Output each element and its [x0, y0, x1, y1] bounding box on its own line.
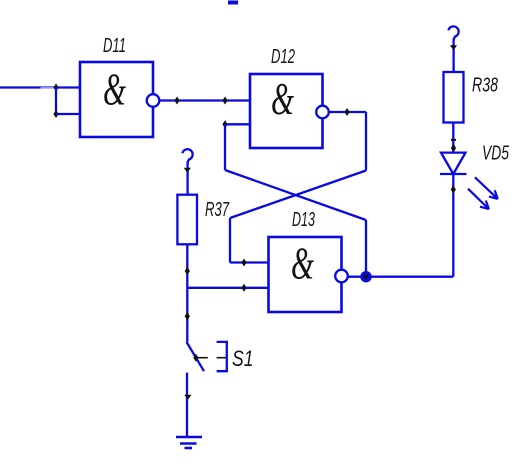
wire input from left edge — [0, 86, 80, 88]
wire hook to R38 — [452, 39, 454, 72]
svg-text:R38: R38 — [472, 75, 498, 97]
svg-text:R37: R37 — [205, 199, 230, 221]
LED VD5 cathode bar — [440, 173, 467, 175]
wire D12 input 2 vertical down — [224, 124, 226, 170]
switch S1 actuator dash 1 — [198, 357, 208, 359]
switch S1 blade — [187, 342, 205, 371]
node arrow on R38 top wire — [450, 45, 457, 50]
svg-text:&: & — [271, 74, 294, 124]
node input branch junction — [53, 84, 58, 92]
wire faded overlay — [41, 87, 56, 90]
resistor R37 — [177, 195, 197, 245]
svg-text:D11: D11 — [103, 35, 126, 57]
svg-text:&: & — [291, 239, 314, 289]
node on D12 output wire — [344, 108, 349, 116]
wire D13 input 2 horizontal — [187, 287, 268, 289]
svg-text:D13: D13 — [292, 209, 315, 231]
power hook R37 top — [182, 149, 192, 162]
wire cross diagonal A (D12 in2 to D13 out node) — [225, 170, 366, 220]
node on D13 input 1 — [241, 259, 246, 267]
svg-text:&: & — [103, 65, 126, 115]
gate D13 body — [269, 237, 342, 312]
wire D13 output to LED column — [348, 276, 454, 278]
ground symbol bar 3 — [185, 447, 193, 450]
switch S1 actuator bracket — [217, 342, 227, 371]
LED VD5 emission arrow 2 — [468, 189, 489, 209]
gate D13 output inversion bubble — [335, 270, 348, 283]
wire D13 input 1 horizontal — [230, 261, 269, 263]
wire cross diagonal B (D12 out to D13 in1) — [230, 171, 366, 219]
wire R38 to LED — [452, 123, 454, 153]
gate D11 output inversion bubble — [147, 94, 160, 107]
wire D12 input 2 horizontal — [225, 123, 250, 125]
wire D12 output vertical down — [365, 112, 367, 171]
switch S1 actuator dash 2 — [217, 357, 227, 359]
node on D11 output wire — [174, 97, 179, 105]
wire vertical into output node — [365, 220, 367, 277]
wire LED cathode down to output net — [452, 174, 454, 277]
wire top margin stub — [228, 1, 238, 5]
node lower branch junction — [53, 110, 58, 118]
gate D12 output inversion bubble — [316, 106, 329, 119]
node dash above LED — [451, 139, 456, 141]
wire D13 input 1 vertical — [229, 218, 231, 263]
svg-text:VD5: VD5 — [482, 143, 510, 165]
LED VD5 triangle — [441, 153, 466, 174]
wire input branch vertical — [55, 88, 57, 115]
node diamond above LED — [451, 144, 456, 153]
node arrow on ground wire — [184, 395, 191, 400]
LED VD5 emission arrow 1 — [475, 177, 498, 199]
node diamond below LED — [451, 185, 456, 194]
node diamond on wire below R37 — [185, 267, 190, 276]
wire hook to R37 — [186, 162, 188, 195]
node D12 input 2 corner — [222, 120, 227, 128]
wire R37 bottom to switch — [186, 244, 188, 342]
power hook R38 top — [448, 26, 458, 39]
resistor R38 — [444, 72, 464, 123]
node on D13 input 2 — [241, 284, 246, 292]
wire input branch to D11 pin 2 — [56, 113, 80, 115]
wire switch bottom to ground — [186, 373, 188, 437]
node junction dot D13 output — [360, 271, 371, 282]
switch S1 blade arrow marker — [193, 354, 198, 362]
svg-text:S1: S1 — [232, 346, 254, 371]
wire D11 output to D12 input 1 — [159, 99, 250, 101]
node arrow on R37 top wire — [184, 168, 191, 173]
svg-text:D12: D12 — [271, 46, 295, 68]
wire D12 output right — [329, 111, 366, 113]
node diamond above switch — [185, 312, 190, 321]
op-amp U gate D11 body — [80, 62, 153, 137]
ground symbol bar 1 — [176, 436, 202, 439]
gate D12 body — [250, 74, 323, 148]
node at feedback tap — [222, 97, 227, 105]
ground symbol bar 2 — [180, 442, 197, 445]
